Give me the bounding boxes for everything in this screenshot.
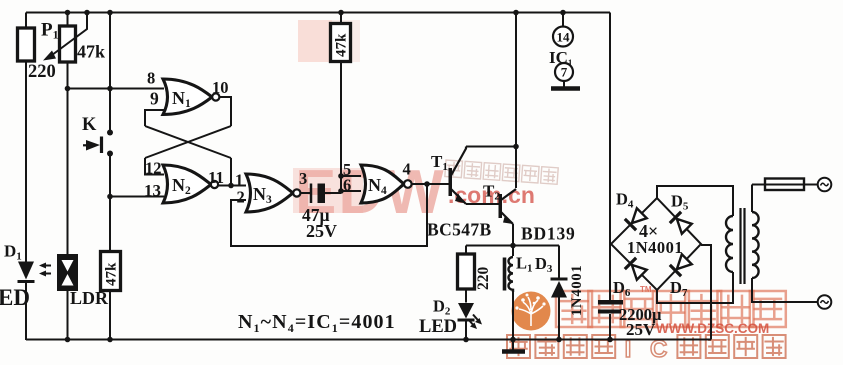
wire: T1/T2 collector rail xyxy=(466,13,516,189)
svg-text:47k: 47k xyxy=(334,33,350,57)
diode D7 xyxy=(670,254,693,277)
svg-text:7: 7 xyxy=(561,65,568,80)
wire: cross coupling diagonal a xyxy=(145,126,231,158)
svg-text:11: 11 xyxy=(208,168,224,187)
node: junctions on ground rail xyxy=(65,337,71,343)
node: junction P1/LDR with pin8 wire xyxy=(65,86,71,92)
relay coil L1 xyxy=(503,258,507,291)
wire: transformer secondary bottom to AC terminal xyxy=(752,278,818,302)
svg-text:47k: 47k xyxy=(77,42,105,62)
wire: ground bottom rail xyxy=(26,245,711,340)
node: junctions on top rail xyxy=(65,10,71,16)
svg-text:3: 3 xyxy=(299,169,307,188)
wire: bridge bottom AC lead to transformer xyxy=(657,272,733,303)
ground symbol (relay branch) xyxy=(512,340,514,351)
fuse xyxy=(765,179,804,191)
NOR gate N3 xyxy=(246,174,293,212)
wire: K/47k branch vertical xyxy=(109,13,111,341)
wire: bridge top AC lead to transformer xyxy=(657,186,733,216)
transistor T1 BC547B xyxy=(449,168,453,196)
resistor 220 (left) xyxy=(18,28,35,61)
potentiometer P1 47k xyxy=(60,26,76,62)
svg-text:1N4001: 1N4001 xyxy=(627,238,683,257)
switch K (push button) xyxy=(107,130,113,136)
svg-text:WWW.DZSC.COM: WWW.DZSC.COM xyxy=(656,321,769,336)
node: junction collectors to +V xyxy=(513,144,519,150)
bridge rectifier frame xyxy=(611,198,701,290)
capacitor 2200u 25V xyxy=(598,300,623,305)
wire: T1 emitter to T2 base xyxy=(466,203,499,205)
svg-text:K: K xyxy=(82,115,97,135)
svg-text:LED: LED xyxy=(419,317,457,337)
svg-text:12: 12 xyxy=(145,159,162,178)
svg-text:220: 220 xyxy=(475,267,492,291)
wire: IC1 supply stub xyxy=(562,13,564,27)
wire: cross coupling diagonal b xyxy=(145,126,231,158)
wire: N3 pin 2 feedback loop bottom xyxy=(231,184,427,246)
svg-text:4: 4 xyxy=(403,160,411,179)
wire: to N2 pin 12 xyxy=(145,158,164,175)
diode D5 xyxy=(670,212,693,235)
wire: K line to N2 pin 13 xyxy=(110,196,164,198)
svg-text:10: 10 xyxy=(212,78,229,97)
svg-text:1N4001: 1N4001 xyxy=(569,264,585,316)
wire: divider node to N1 pin 8 xyxy=(68,88,165,90)
svg-text:9: 9 xyxy=(150,89,159,109)
svg-text:25V: 25V xyxy=(306,221,337,241)
capacitor 47u 25V xyxy=(310,184,313,204)
node: junction node 11 xyxy=(228,183,234,189)
svg-text:13: 13 xyxy=(144,181,161,200)
resistor 47k (lower, in K branch) xyxy=(101,252,121,291)
wire: N1 output 10 to cross coupling xyxy=(216,97,231,126)
node: junction K line with pin8 wire xyxy=(107,86,113,92)
wire: N4 output 4 to T1 base xyxy=(408,183,449,185)
transformer secondary winding xyxy=(752,212,759,278)
svg-text:25V: 25V xyxy=(626,320,656,339)
svg-text:6: 6 xyxy=(343,176,351,195)
wire: N3 output to capacitor xyxy=(297,192,311,194)
LED D2 xyxy=(458,303,474,319)
wire: D3 branch xyxy=(558,246,560,341)
resistor 220 (LED branch) xyxy=(458,254,475,289)
node: junction N4 output feedback xyxy=(424,181,430,187)
node: junction cap/pin6/47k xyxy=(338,188,344,194)
diode D4 xyxy=(625,208,648,231)
node: junction pin5 tap xyxy=(338,173,344,179)
wire: left branch vertical (220/D1) xyxy=(25,13,27,341)
wire: relay branch xyxy=(512,246,514,341)
svg-text:BD139: BD139 xyxy=(521,224,576,244)
transformer core xyxy=(739,208,741,284)
svg-text:TM: TM xyxy=(640,285,652,294)
svg-text:47k: 47k xyxy=(104,262,120,286)
svg-text:BC547B: BC547B xyxy=(427,220,492,240)
wire: N4 pin 6 stub xyxy=(341,190,361,192)
AC terminal bottom xyxy=(818,295,832,309)
IC1 power pins 14 / 7 xyxy=(553,27,573,47)
diode D3 1N4001 (flyback) xyxy=(551,281,567,298)
svg-text:ED: ED xyxy=(0,285,30,310)
svg-text:14: 14 xyxy=(557,30,571,45)
wire: right +V vertical with 2200u cap xyxy=(609,13,611,340)
NOR gate N4 xyxy=(361,165,404,203)
ground symbol (IC1 pin7) xyxy=(563,81,565,87)
wire: P1/LDR branch vertical xyxy=(67,13,69,341)
resistor 47k (top, timing) xyxy=(331,24,351,62)
wire: 220/LED branch xyxy=(465,246,467,341)
wire: T2 emitter down xyxy=(512,224,514,246)
svg-text:N1~N4=IC1=4001: N1~N4=IC1=4001 xyxy=(238,311,396,335)
wire: N2 output 11 to N3 pin 1 xyxy=(215,185,247,187)
node: junction T2 emitter / relay xyxy=(510,243,516,249)
wire: capacitor to node 5-6 xyxy=(325,192,341,194)
NOR gate N1 xyxy=(163,79,212,115)
AC terminal top xyxy=(818,178,832,192)
wire: +V top rail xyxy=(26,12,610,14)
diode D6 xyxy=(625,258,648,281)
transistor T2 BD139 xyxy=(499,194,503,218)
NOR gate N2 xyxy=(163,165,211,203)
wire: feedback to node 11 xyxy=(230,158,232,186)
svg-text:8: 8 xyxy=(147,69,155,88)
photoresistor LDR xyxy=(59,256,77,290)
wire: transformer secondary top to fuse / AC terminal xyxy=(752,185,818,213)
wire: N1 pin 9 feedback loop xyxy=(145,110,164,126)
node: junction K line pin13 xyxy=(107,194,113,200)
svg-text:220: 220 xyxy=(28,62,56,82)
transformer primary winding xyxy=(726,216,733,272)
svg-text:2: 2 xyxy=(237,188,245,207)
wire: 47k top resistor branch xyxy=(340,13,342,192)
LED D1 xyxy=(18,262,34,280)
wire: relay top rail xyxy=(466,245,559,247)
wire: N4 pin 5 stub xyxy=(341,175,361,177)
